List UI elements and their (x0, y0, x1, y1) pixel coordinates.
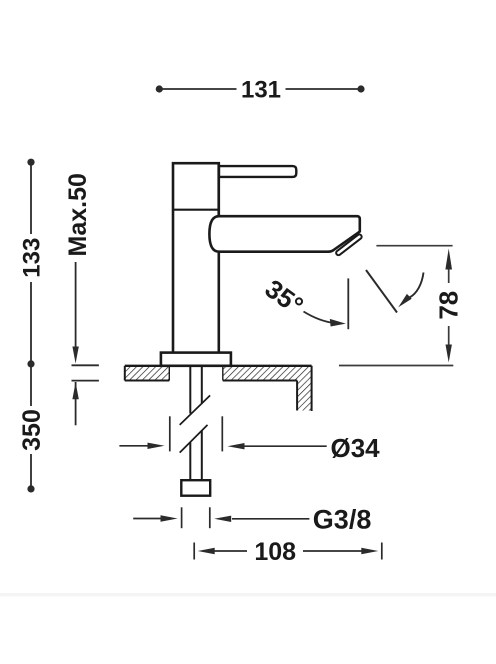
dimension Max.50 tick counter top (72, 364, 99, 366)
supply pipe left wall lower (189, 443, 191, 481)
dimension 108 line right segment (303, 550, 362, 552)
faucet body cylinder (173, 163, 219, 353)
svg-text:Max.50: Max.50 (64, 173, 92, 256)
water stream curved arrow line (410, 273, 424, 298)
dimension 78 arrowhead down (446, 345, 452, 363)
dimension 133/350 endpoint dot bottom (27, 485, 34, 492)
dimension O34 arrowhead left (148, 443, 165, 449)
svg-text:G3/8: G3/8 (313, 505, 372, 535)
dimension G3/8 arrowhead left (161, 515, 178, 521)
dimension O34 arrowhead right (228, 443, 245, 449)
dimension 108 line left segment (214, 550, 247, 552)
svg-text:131: 131 (241, 76, 281, 103)
dimension G3/8 extension line left (181, 507, 183, 528)
supply pipe right wall upper (201, 366, 203, 403)
dimension O34 leader line right (244, 445, 327, 447)
countertop hole edge left (168, 367, 170, 381)
dimension 108 arrowhead right (361, 548, 378, 554)
countertop hatched slab left of hole (125, 367, 170, 380)
dimension 133/350 endpoint dot top (27, 159, 34, 166)
pipe break diagonal upper (180, 395, 210, 425)
dimension Max.50 leader line upper (75, 262, 77, 348)
dimension G3/8 leader line left (133, 518, 161, 520)
countertop left end edge (124, 366, 126, 381)
angle 35 deg leader arc (304, 312, 334, 323)
dimension 78 line lower segment (448, 326, 450, 346)
water stream direction line (366, 270, 397, 313)
dimension Max.50 arrowhead up (72, 382, 78, 399)
svg-text:133: 133 (19, 238, 46, 278)
dimension Max.50 tick counter bottom (72, 380, 99, 382)
dimension 133/350 endpoint dot middle (27, 360, 34, 367)
dimension 131 line right segment (286, 88, 360, 90)
dimension 78 line upper segment (448, 267, 450, 283)
countertop hatched slab right of hole (223, 367, 312, 380)
faucet aerator tip plate (335, 234, 362, 257)
countertop return inner edge (296, 381, 298, 411)
svg-text:350: 350 (18, 409, 46, 451)
footer separator rule (0, 593, 496, 597)
svg-text:78: 78 (433, 291, 463, 320)
dimension O34 extension line left (169, 416, 171, 451)
faucet handle lever (219, 166, 296, 177)
faucet body separation line (173, 209, 219, 211)
svg-text:108: 108 (254, 538, 296, 566)
countertop hatched right vertical return (297, 380, 312, 410)
connection nut G3/8 (181, 480, 210, 496)
countertop top surface line (125, 365, 312, 367)
supply pipe right wall lower (201, 431, 203, 481)
supply pipe left wall upper (189, 366, 191, 414)
dimension 131 endpoint dot right (357, 85, 364, 92)
dimension 131 endpoint dot left (156, 85, 163, 92)
dimension G3/8 arrowhead right (214, 516, 231, 522)
countertop underside line left (125, 380, 170, 382)
dimension 108 tick right (381, 543, 383, 560)
dimension 108 arrowhead left (198, 548, 215, 554)
dimension Max.50 leader line lower (75, 382, 77, 425)
dimension 108 tick left (193, 543, 195, 560)
dimension 131 line left segment (161, 88, 237, 90)
dimension G3/8 extension line right (209, 507, 211, 528)
angle 35 deg arrowhead (330, 319, 346, 327)
dimension 350 line segments (30, 366, 32, 487)
pipe break diagonal lower (180, 425, 208, 453)
dimension O34 extension line right (221, 416, 223, 451)
faucet body right edge over lever join (217, 163, 220, 216)
dimension 78 extension line bottom (339, 365, 453, 367)
dimension G3/8 leader line right (232, 518, 309, 520)
svg-text:Ø34: Ø34 (331, 433, 381, 463)
countertop hole edge right (222, 367, 224, 381)
dimension Max.50 arrowhead down (72, 347, 78, 364)
faucet spout (209, 216, 359, 252)
dimension 78 extension line top (376, 245, 452, 247)
water stream arrowhead (398, 294, 411, 307)
dimension O34 leader line left (119, 445, 148, 447)
countertop underside line right (223, 380, 297, 382)
faucet base flange (161, 353, 231, 366)
angle 35 deg vertical reference line (347, 278, 349, 329)
dimension 78 arrowhead up (445, 249, 452, 270)
countertop return outer edge (311, 366, 313, 411)
dimension 133 line segments (30, 164, 32, 362)
